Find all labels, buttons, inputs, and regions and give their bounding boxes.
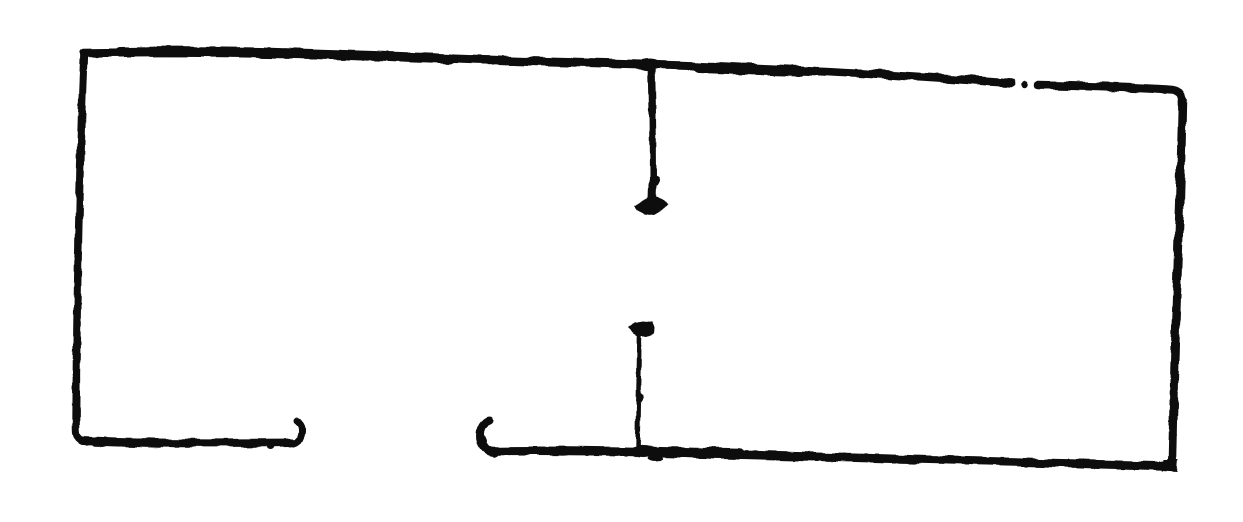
wire: top edge right portion into top-right corner [1038,85,1182,104]
wire: thick overdraw on top edge mid [700,68,800,72]
wire: hook at left end of bottom-right segment [481,421,495,453]
wire: lower vertical shaft down to bottom edge [638,334,640,452]
wire: thick overdraw on top edge [120,52,450,59]
wire: upturned hook at right end of bottom-left segment [291,421,302,444]
node: ink dot in top edge gap [1022,82,1028,88]
wire: vertical drop from top edge (upper arrow shaft) [652,63,654,197]
node: ink blob on hook midsection [478,435,487,447]
wire: top edge of loop (left portion) [84,53,1012,83]
wire: bottom-left segment [82,441,293,443]
node: bump on lower shaft [637,393,643,403]
wire: thick overdraw on bottom edge [650,452,740,454]
node: junction blob at bottom edge / lower shaft [630,446,656,458]
node: junction blob at top edge / shaft [637,59,661,70]
arrowhead blob at top of lower shaft [627,321,655,336]
node: bump on upper arrow shaft [649,176,661,186]
arrowhead pointing down on upper shaft [635,197,667,216]
node: blob under bottom-left segment [266,442,274,450]
node: ink blob below bottom edge right of junction [648,455,664,462]
node: blob at tip of hook [486,417,494,425]
wire: bottom edge right portion [492,451,1166,466]
wire: right edge of loop [1162,100,1183,465]
wire: thick lower stub of upper shaft [648,184,658,200]
node: bottom-right corner ink blob [1162,459,1178,472]
wire: thick overdraw on bottom-left segment [95,442,160,444]
node: blob at tip of upturned hook [295,418,302,425]
wire: left edge of loop [76,53,85,441]
